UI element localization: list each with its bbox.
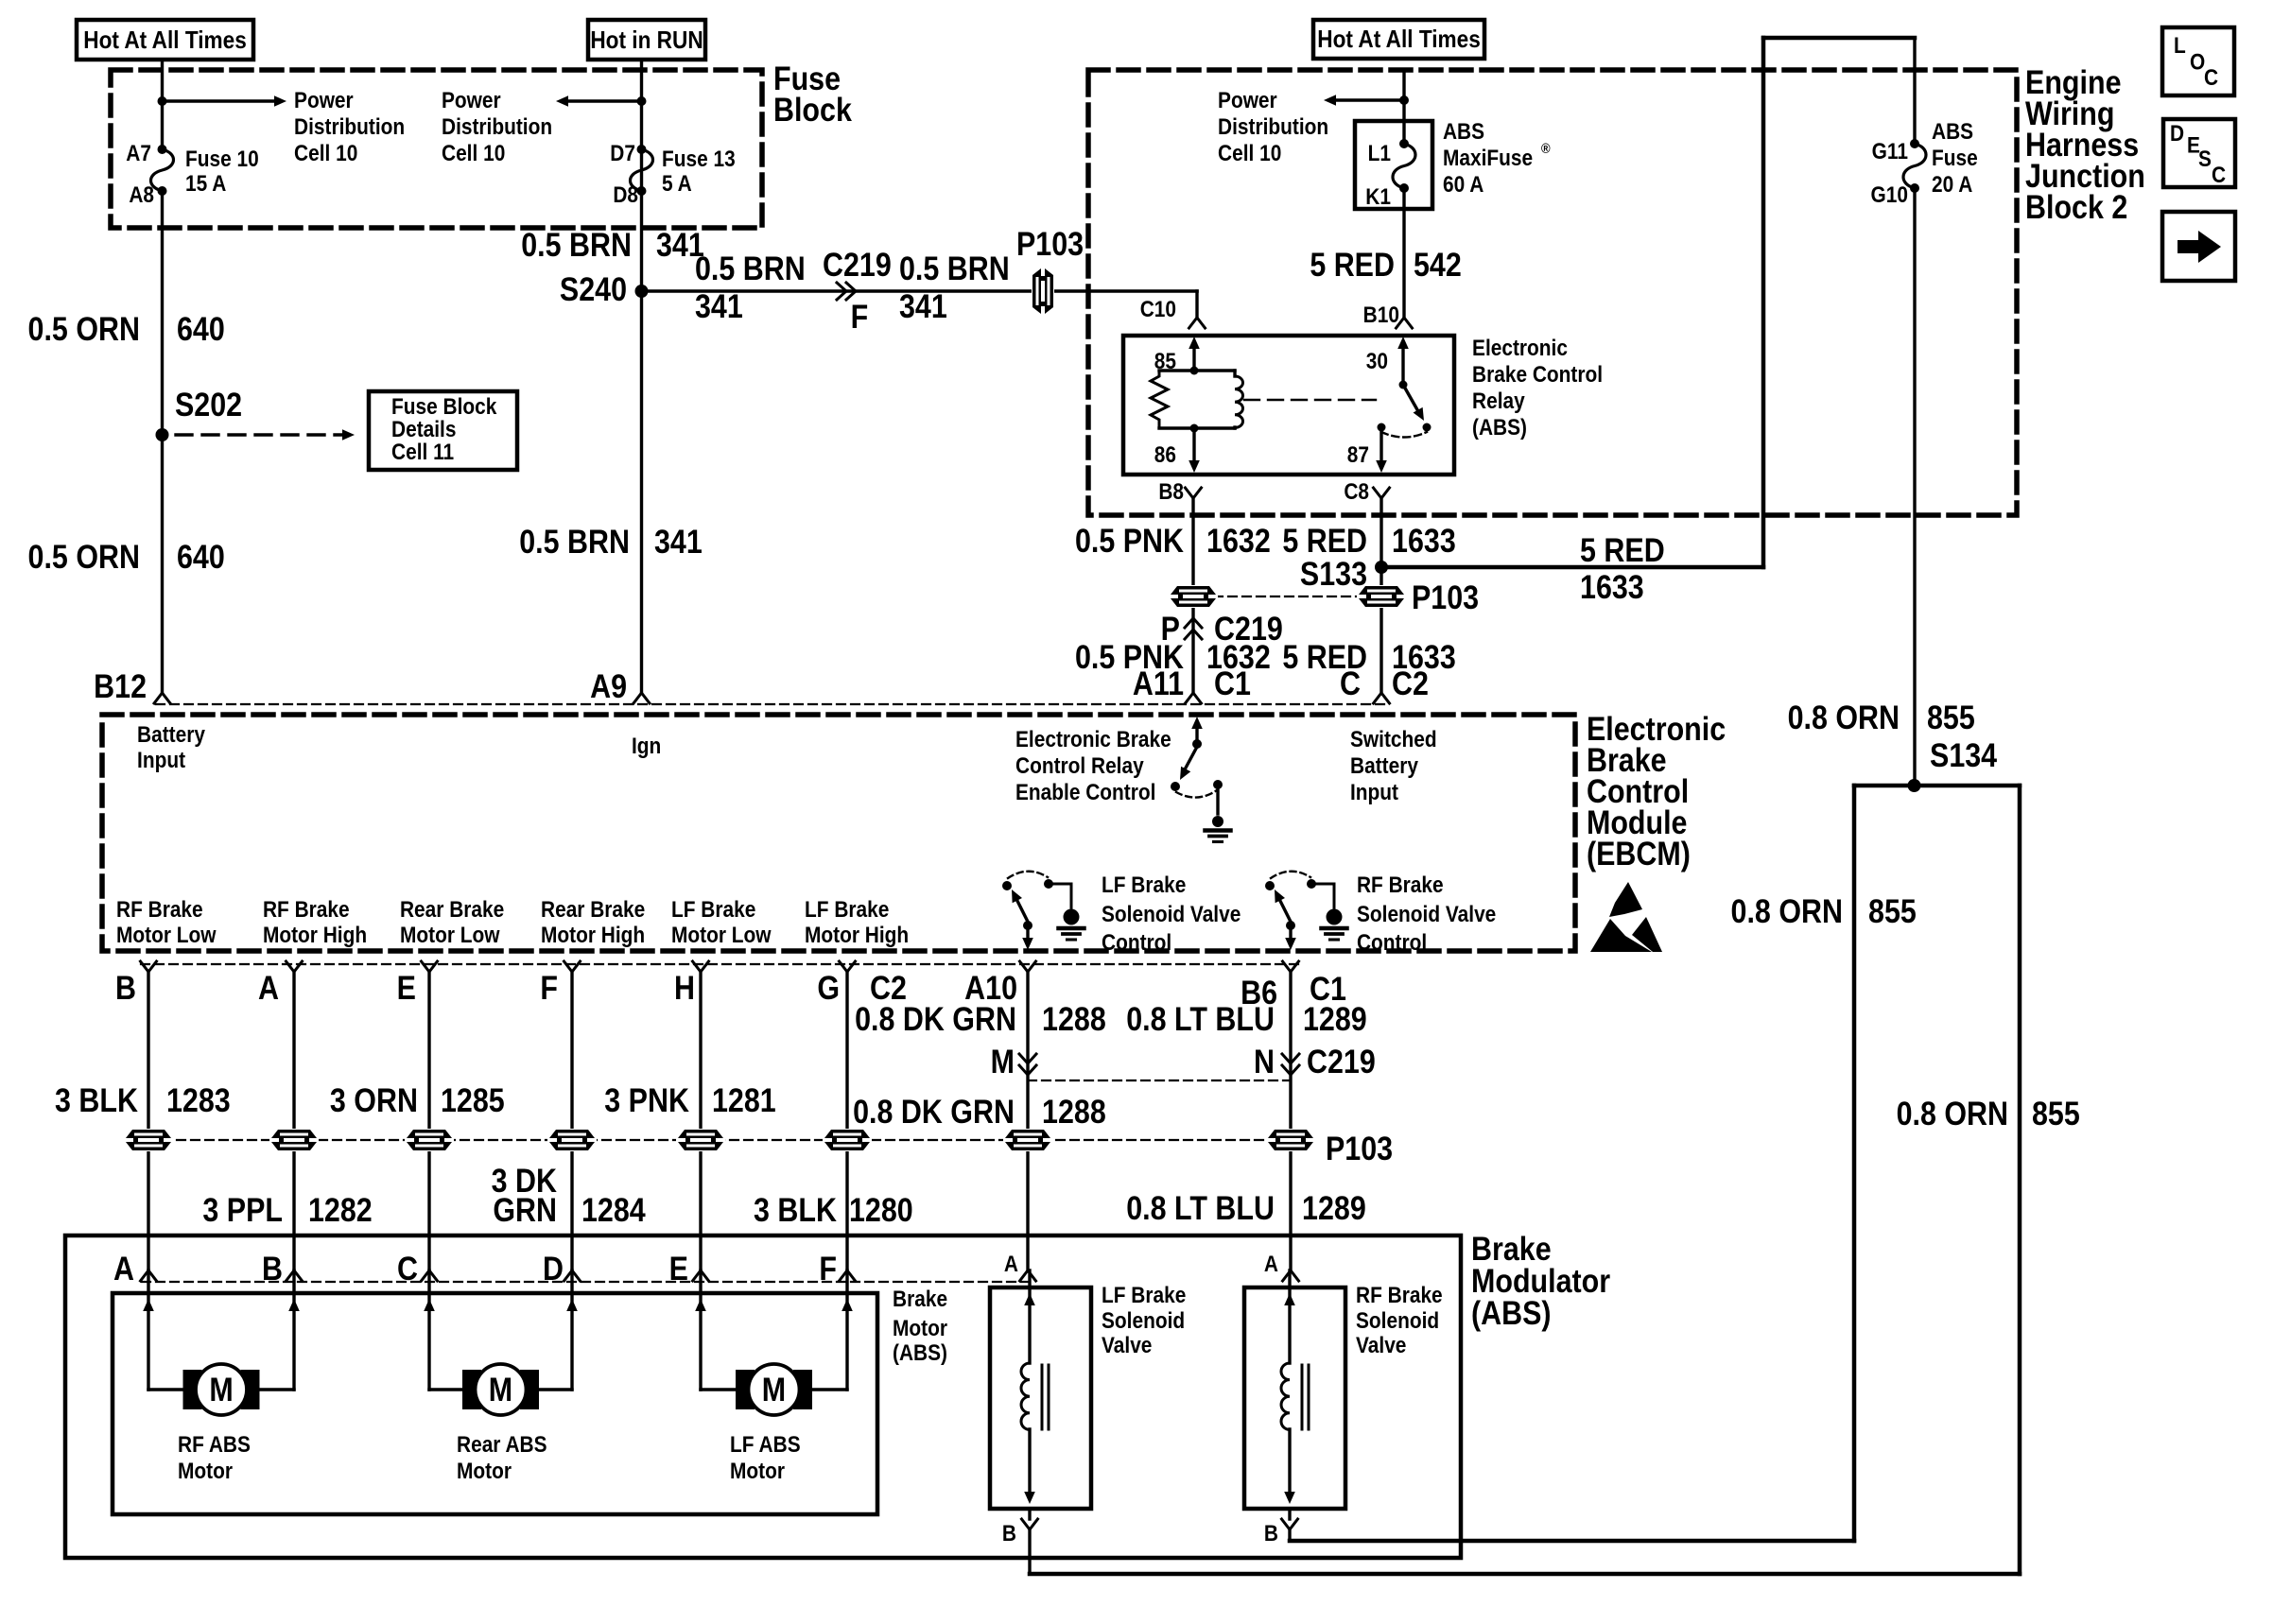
- svg-text:Power: Power: [294, 88, 354, 113]
- svg-text:15 A: 15 A: [185, 171, 226, 197]
- svg-text:B12: B12: [94, 667, 147, 704]
- svg-text:Motor: Motor: [730, 1459, 785, 1484]
- svg-text:Motor Low: Motor Low: [116, 923, 217, 948]
- svg-text:Fuse 10: Fuse 10: [185, 147, 259, 172]
- svg-text:LF Brake: LF Brake: [1102, 1283, 1186, 1308]
- svg-text:1285: 1285: [441, 1081, 505, 1118]
- svg-text:D: D: [543, 1250, 564, 1287]
- svg-text:D7: D7: [610, 141, 635, 166]
- svg-text:0.5 BRN: 0.5 BRN: [519, 523, 630, 560]
- svg-text:542: 542: [1414, 246, 1462, 283]
- svg-text:0.8 DK GRN: 0.8 DK GRN: [853, 1093, 1015, 1130]
- svg-text:C10: C10: [1140, 297, 1176, 322]
- svg-text:0.8 DK GRN: 0.8 DK GRN: [855, 1000, 1016, 1037]
- svg-text:87: 87: [1347, 442, 1369, 468]
- svg-text:A8: A8: [129, 182, 154, 208]
- svg-text:20 A: 20 A: [1932, 172, 1972, 198]
- svg-text:M: M: [489, 1371, 512, 1408]
- svg-text:341: 341: [899, 287, 947, 324]
- svg-text:86: 86: [1154, 442, 1176, 468]
- svg-text:0.5 ORN: 0.5 ORN: [28, 538, 140, 575]
- svg-text:A: A: [258, 969, 279, 1006]
- svg-text:®: ®: [1541, 140, 1551, 156]
- svg-text:Input: Input: [137, 748, 185, 773]
- svg-text:L1: L1: [1368, 141, 1391, 166]
- svg-text:1289: 1289: [1303, 1000, 1367, 1037]
- svg-text:B8: B8: [1158, 479, 1184, 505]
- svg-text:0.8 ORN: 0.8 ORN: [1788, 699, 1900, 735]
- svg-text:G10: G10: [1871, 182, 1908, 208]
- svg-text:C8: C8: [1344, 479, 1369, 505]
- svg-text:Battery: Battery: [137, 722, 205, 748]
- svg-text:0.5 BRN: 0.5 BRN: [899, 250, 1010, 286]
- svg-text:1288: 1288: [1042, 1000, 1106, 1037]
- svg-text:3 PNK: 3 PNK: [604, 1081, 689, 1118]
- svg-text:H: H: [674, 969, 695, 1006]
- svg-text:Hot At All Times: Hot At All Times: [1317, 26, 1481, 54]
- svg-text:Solenoid: Solenoid: [1356, 1308, 1439, 1334]
- svg-text:0.5 BRN: 0.5 BRN: [695, 250, 806, 286]
- svg-text:B10: B10: [1363, 302, 1399, 328]
- svg-text:5 RED: 5 RED: [1580, 531, 1665, 568]
- svg-text:0.8 ORN: 0.8 ORN: [1897, 1095, 2008, 1132]
- svg-text:Fuse: Fuse: [1932, 146, 1978, 171]
- svg-text:Solenoid: Solenoid: [1102, 1308, 1185, 1334]
- svg-text:Switched: Switched: [1350, 727, 1437, 752]
- svg-text:LF Brake: LF Brake: [1102, 872, 1186, 898]
- svg-text:Block: Block: [773, 91, 853, 128]
- svg-text:P103: P103: [1016, 225, 1084, 262]
- svg-text:Solenoid Valve: Solenoid Valve: [1102, 902, 1241, 927]
- svg-text:Hot in RUN: Hot in RUN: [590, 27, 703, 55]
- svg-text:Brake Control: Brake Control: [1472, 362, 1603, 388]
- svg-text:G11: G11: [1872, 139, 1908, 164]
- svg-text:Solenoid Valve: Solenoid Valve: [1357, 902, 1496, 927]
- svg-text:G: G: [817, 969, 840, 1006]
- svg-text:Control: Control: [1102, 930, 1171, 956]
- svg-text:S133: S133: [1300, 555, 1367, 592]
- svg-text:Electronic: Electronic: [1472, 336, 1568, 361]
- svg-text:Control Relay: Control Relay: [1015, 753, 1144, 779]
- svg-text:3 BLK: 3 BLK: [55, 1081, 138, 1118]
- svg-text:O: O: [2190, 49, 2205, 75]
- svg-text:341: 341: [654, 523, 703, 560]
- svg-text:Motor High: Motor High: [263, 923, 367, 948]
- svg-text:A: A: [1264, 1252, 1278, 1277]
- svg-text:D8: D8: [613, 182, 638, 208]
- svg-text:640: 640: [177, 538, 225, 575]
- svg-text:Distribution: Distribution: [1218, 114, 1328, 140]
- svg-text:1282: 1282: [308, 1191, 373, 1228]
- svg-text:(EBCM): (EBCM): [1587, 835, 1691, 872]
- svg-text:F: F: [540, 969, 558, 1006]
- svg-text:Cell 11: Cell 11: [391, 440, 454, 465]
- svg-text:A7: A7: [126, 141, 151, 166]
- svg-text:LF ABS: LF ABS: [730, 1432, 801, 1458]
- svg-text:B: B: [115, 969, 136, 1006]
- svg-text:P103: P103: [1412, 579, 1479, 615]
- svg-text:3 ORN: 3 ORN: [330, 1081, 418, 1118]
- svg-text:MaxiFuse: MaxiFuse: [1443, 146, 1533, 171]
- svg-text:Distribution: Distribution: [294, 114, 405, 140]
- svg-text:640: 640: [177, 310, 225, 347]
- svg-text:Battery: Battery: [1350, 753, 1418, 779]
- svg-text:0.5 PNK: 0.5 PNK: [1075, 522, 1184, 559]
- svg-text:855: 855: [1927, 699, 1975, 735]
- svg-text:5 RED: 5 RED: [1310, 246, 1395, 283]
- svg-text:5 RED: 5 RED: [1282, 522, 1367, 559]
- svg-text:1284: 1284: [581, 1191, 646, 1228]
- svg-text:M: M: [762, 1371, 786, 1408]
- svg-text:1289: 1289: [1302, 1189, 1366, 1226]
- svg-text:A11: A11: [1133, 665, 1184, 701]
- svg-text:RF Brake: RF Brake: [263, 897, 350, 923]
- svg-text:Ign: Ign: [632, 734, 661, 759]
- svg-text:Input: Input: [1350, 780, 1398, 805]
- svg-text:GRN: GRN: [493, 1191, 557, 1228]
- svg-text:N: N: [1254, 1043, 1275, 1080]
- svg-text:0.5 BRN: 0.5 BRN: [521, 226, 632, 263]
- svg-text:Valve: Valve: [1356, 1333, 1406, 1358]
- svg-text:Enable Control: Enable Control: [1015, 780, 1155, 805]
- svg-text:855: 855: [1868, 892, 1917, 929]
- svg-text:Motor: Motor: [457, 1459, 512, 1484]
- svg-text:85: 85: [1154, 349, 1176, 374]
- svg-text:LF Brake: LF Brake: [805, 897, 889, 923]
- svg-text:(ABS): (ABS): [1471, 1294, 1552, 1331]
- svg-text:F: F: [851, 298, 869, 335]
- svg-text:Fuse 13: Fuse 13: [662, 147, 736, 172]
- svg-text:Rear ABS: Rear ABS: [457, 1432, 547, 1458]
- svg-text:ABS: ABS: [1443, 119, 1484, 145]
- svg-text:E: E: [397, 969, 416, 1006]
- svg-text:C: C: [397, 1250, 418, 1287]
- svg-text:A: A: [1004, 1252, 1018, 1277]
- svg-text:Relay: Relay: [1472, 389, 1525, 414]
- svg-text:Motor: Motor: [893, 1316, 947, 1341]
- svg-text:Power: Power: [1218, 88, 1277, 113]
- svg-text:C: C: [2204, 65, 2218, 91]
- svg-text:Cell 10: Cell 10: [442, 141, 505, 166]
- svg-text:S240: S240: [560, 270, 627, 307]
- svg-text:RF Brake: RF Brake: [1356, 1283, 1443, 1308]
- svg-text:LF Brake: LF Brake: [671, 897, 755, 923]
- svg-text:C1: C1: [1214, 665, 1251, 701]
- svg-text:0.8 ORN: 0.8 ORN: [1731, 892, 1843, 929]
- svg-text:Electronic Brake: Electronic Brake: [1015, 727, 1171, 752]
- svg-text:855: 855: [2032, 1095, 2080, 1132]
- svg-text:Motor: Motor: [178, 1459, 233, 1484]
- svg-text:S: S: [2198, 147, 2212, 172]
- svg-text:C: C: [1340, 665, 1361, 701]
- svg-text:C219: C219: [823, 246, 892, 283]
- svg-text:1632: 1632: [1206, 522, 1271, 559]
- svg-text:Control: Control: [1357, 930, 1427, 956]
- svg-text:RF ABS: RF ABS: [178, 1432, 251, 1458]
- svg-text:Brake: Brake: [893, 1287, 947, 1312]
- svg-text:M: M: [209, 1371, 233, 1408]
- svg-text:3 BLK: 3 BLK: [754, 1191, 837, 1228]
- svg-text:0.8 LT BLU: 0.8 LT BLU: [1126, 1000, 1275, 1037]
- svg-text:1283: 1283: [166, 1081, 231, 1118]
- svg-text:B: B: [1002, 1521, 1016, 1546]
- svg-text:1633: 1633: [1392, 522, 1456, 559]
- svg-text:Valve: Valve: [1102, 1333, 1152, 1358]
- svg-text:5 A: 5 A: [662, 171, 692, 197]
- svg-text:0.8 LT BLU: 0.8 LT BLU: [1126, 1189, 1275, 1226]
- svg-text:Motor High: Motor High: [805, 923, 909, 948]
- svg-text:Block 2: Block 2: [2025, 188, 2127, 225]
- svg-text:C219: C219: [1307, 1043, 1376, 1080]
- svg-text:3 PPL: 3 PPL: [202, 1191, 283, 1228]
- svg-text:E: E: [669, 1250, 688, 1287]
- svg-text:Hot At All Times: Hot At All Times: [83, 27, 247, 55]
- svg-text:K1: K1: [1365, 184, 1391, 210]
- svg-text:Rear Brake: Rear Brake: [541, 897, 645, 923]
- svg-text:Motor High: Motor High: [541, 923, 645, 948]
- svg-text:30: 30: [1366, 349, 1388, 374]
- svg-text:Rear Brake: Rear Brake: [400, 897, 504, 923]
- svg-text:Details: Details: [391, 417, 456, 442]
- svg-text:RF Brake: RF Brake: [1357, 872, 1444, 898]
- svg-text:ABS: ABS: [1932, 119, 1973, 145]
- svg-text:C: C: [2212, 163, 2226, 188]
- svg-text:1633: 1633: [1580, 568, 1644, 605]
- svg-text:P103: P103: [1326, 1130, 1393, 1166]
- svg-text:Distribution: Distribution: [442, 114, 552, 140]
- svg-text:0.5 ORN: 0.5 ORN: [28, 310, 140, 347]
- svg-text:(ABS): (ABS): [1472, 415, 1527, 441]
- svg-text:Power: Power: [442, 88, 501, 113]
- svg-text:1280: 1280: [849, 1191, 913, 1228]
- svg-text:A9: A9: [590, 667, 627, 704]
- svg-text:B: B: [1264, 1521, 1278, 1546]
- svg-text:L: L: [2174, 33, 2186, 59]
- svg-text:D: D: [2170, 121, 2184, 147]
- svg-text:Cell 10: Cell 10: [1218, 141, 1281, 166]
- svg-text:1281: 1281: [712, 1081, 776, 1118]
- svg-text:Cell 10: Cell 10: [294, 141, 357, 166]
- svg-text:M: M: [991, 1043, 1015, 1080]
- svg-text:RF Brake: RF Brake: [116, 897, 203, 923]
- svg-text:Fuse Block: Fuse Block: [391, 394, 497, 420]
- svg-text:60 A: 60 A: [1443, 172, 1484, 198]
- svg-text:B: B: [262, 1250, 283, 1287]
- svg-text:341: 341: [695, 287, 743, 324]
- svg-text:F: F: [819, 1250, 837, 1287]
- svg-text:C2: C2: [1392, 665, 1429, 701]
- svg-text:S202: S202: [175, 386, 242, 423]
- svg-text:1288: 1288: [1042, 1093, 1106, 1130]
- svg-text:S134: S134: [1930, 736, 1998, 773]
- svg-text:Motor Low: Motor Low: [671, 923, 772, 948]
- svg-text:Motor Low: Motor Low: [400, 923, 500, 948]
- svg-text:A: A: [113, 1250, 134, 1287]
- svg-text:(ABS): (ABS): [893, 1340, 947, 1366]
